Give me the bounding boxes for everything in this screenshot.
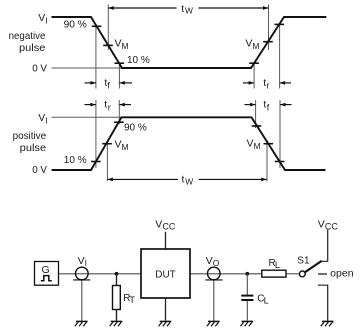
svg-text:M: M xyxy=(122,142,129,152)
svg-text:V: V xyxy=(115,139,122,151)
svg-text:open: open xyxy=(330,267,354,279)
svg-text:V: V xyxy=(115,38,122,50)
svg-text:10 %: 10 % xyxy=(127,54,150,66)
svg-text:pulse: pulse xyxy=(19,42,46,54)
svg-text:0 V: 0 V xyxy=(32,164,47,176)
svg-text:CC: CC xyxy=(325,222,338,232)
svg-text:S1: S1 xyxy=(297,256,310,267)
svg-text:r: r xyxy=(108,102,111,112)
svg-text:positive: positive xyxy=(13,130,47,142)
svg-text:M: M xyxy=(254,141,261,151)
svg-text:L: L xyxy=(275,260,280,270)
svg-text:O: O xyxy=(213,258,220,268)
svg-text:W: W xyxy=(185,6,193,16)
svg-text:90 %: 90 % xyxy=(124,122,147,134)
svg-text:V: V xyxy=(38,12,45,24)
svg-text:V: V xyxy=(245,38,252,50)
svg-text:10 %: 10 % xyxy=(64,154,87,166)
svg-text:0 V: 0 V xyxy=(32,63,47,75)
svg-text:V: V xyxy=(247,138,254,150)
svg-text:M: M xyxy=(252,41,259,51)
svg-text:V: V xyxy=(155,219,162,231)
svg-text:90 %: 90 % xyxy=(64,19,87,31)
svg-text:I: I xyxy=(85,258,87,268)
svg-text:T: T xyxy=(129,295,135,305)
svg-text:G: G xyxy=(42,264,50,276)
svg-text:DUT: DUT xyxy=(155,268,176,280)
svg-text:V: V xyxy=(38,112,45,124)
svg-text:M: M xyxy=(122,41,129,51)
svg-text:V: V xyxy=(206,256,213,267)
svg-text:I: I xyxy=(45,115,47,125)
svg-text:V: V xyxy=(78,256,85,267)
svg-text:V: V xyxy=(318,219,325,231)
svg-text:r: r xyxy=(267,80,270,90)
svg-text:L: L xyxy=(264,295,269,305)
svg-text:W: W xyxy=(185,176,193,186)
svg-text:t: t xyxy=(182,174,185,186)
svg-text:CC: CC xyxy=(162,222,175,232)
svg-text:negative: negative xyxy=(9,30,46,42)
svg-text:t: t xyxy=(181,3,184,15)
svg-text:I: I xyxy=(45,15,47,25)
svg-text:pulse: pulse xyxy=(20,142,47,154)
